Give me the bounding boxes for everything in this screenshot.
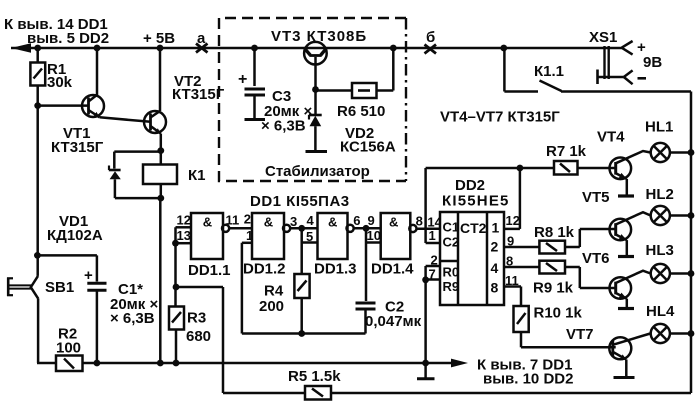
svg-text:9В: 9В (643, 54, 662, 71)
transistor VT2 КТ315Г (144, 111, 166, 133)
svg-text:&: & (264, 215, 273, 230)
svg-text:R6 510: R6 510 (337, 103, 385, 120)
svg-text:3: 3 (290, 214, 297, 229)
lamp HL3 (651, 264, 670, 283)
svg-text:&: & (389, 215, 398, 230)
wire: relay bottom down to bottom rail (160, 184, 163, 198)
svg-text:DD1.4: DD1.4 (371, 261, 414, 278)
wire junction down to SB1/C1 node (36, 106, 39, 256)
capacitor C1 20мк 6.3В (37, 254, 97, 257)
svg-text:VT5: VT5 (582, 189, 610, 206)
arrow to pin 7 DD1 / pin 10 DD2 (451, 359, 468, 368)
arrow to pin 14 DD1 / pin 5 DD2 (left end of rail) (11, 43, 31, 53)
svg-text:б: б (426, 29, 435, 46)
capacitor C2 0,047мк (356, 302, 376, 305)
resistor R9 1k (504, 266, 539, 269)
svg-text:R7 1k: R7 1k (546, 143, 587, 160)
relay K1 coil (160, 151, 163, 165)
svg-text:11: 11 (226, 213, 240, 228)
svg-text:Стабилизатор: Стабилизатор (265, 163, 370, 180)
R0/R9 reset pins to ground (426, 265, 440, 268)
svg-text:КС156А: КС156А (340, 139, 396, 156)
zener VD2 КС156А (314, 90, 317, 115)
node SB1/C1 junction (34, 252, 41, 259)
resistor R4 200 (294, 274, 309, 298)
svg-text:R4: R4 (264, 283, 284, 300)
svg-text:VT4–VT7 КТ315Г: VT4–VT7 КТ315Г (440, 109, 560, 126)
wire to pin 10 and C2 (365, 228, 368, 301)
wire VT2 emitter down (160, 134, 163, 151)
wire 3 to 4 (290, 227, 317, 230)
svg-text:2: 2 (491, 239, 499, 255)
svg-text:CT2: CT2 (460, 220, 487, 236)
svg-text:R9 1k: R9 1k (533, 280, 574, 297)
svg-text:XS1: XS1 (589, 29, 617, 46)
svg-text:1: 1 (492, 220, 500, 236)
svg-text:VT6: VT6 (582, 250, 610, 267)
K1.1 relay contact (503, 48, 506, 92)
svg-text:R10 1k: R10 1k (534, 305, 583, 322)
svg-text:К1.1: К1.1 (534, 63, 564, 80)
loop wire (feedback) (242, 332, 366, 335)
svg-text:C1: C1 (443, 220, 460, 235)
junction R1 on rail (34, 45, 41, 52)
bottom common rail (37, 362, 452, 365)
svg-text:выв. 10 DD2: выв. 10 DD2 (483, 371, 573, 388)
diode VD1 КД102А (flyback) (114, 150, 161, 153)
svg-text:0,047мк: 0,047мк (365, 313, 422, 330)
right edge supply wire (690, 92, 693, 394)
stabilizer dashed box (219, 18, 406, 181)
lamp HL4 (651, 324, 670, 343)
svg-text:R5 1.5k: R5 1.5k (288, 368, 341, 385)
node a X mark (196, 44, 208, 53)
junction K1.1 branch on rail (500, 45, 507, 52)
pushbutton SB1 (36, 255, 39, 276)
svg-text:4: 4 (307, 213, 315, 228)
svg-text:30k: 30k (47, 74, 73, 91)
junction VT2 collector on rail (+5V) (157, 45, 164, 52)
svg-text:R0: R0 (443, 265, 460, 280)
svg-text:DD1.2: DD1.2 (243, 261, 286, 278)
transistor VT4 (610, 158, 632, 180)
wire 8 to 14 (DD2 C1) (417, 227, 441, 230)
svg-text:КТ315Г: КТ315Г (172, 86, 225, 103)
svg-text:2: 2 (431, 253, 438, 268)
wire to pin 5 and R4 (300, 228, 303, 274)
svg-text:&: & (328, 215, 337, 230)
svg-text:выв. 5 DD2: выв. 5 DD2 (27, 30, 109, 47)
gate DD1.4 (381, 213, 411, 259)
svg-text:C2: C2 (443, 235, 460, 250)
wire VT1 emitter to VT2 base (100, 117, 151, 122)
lamp HL1 (651, 143, 670, 162)
svg-text:8: 8 (506, 254, 513, 269)
svg-text:8: 8 (416, 214, 423, 229)
svg-text:DD1.1: DD1.1 (188, 262, 231, 279)
node b X mark (425, 45, 437, 54)
svg-text:R8 1k: R8 1k (534, 224, 575, 241)
svg-text:SB1: SB1 (45, 279, 74, 296)
resistor R10 1k (504, 285, 521, 288)
svg-text:680: 680 (186, 328, 211, 345)
svg-text:11: 11 (505, 273, 519, 288)
svg-text:КI55НЕ5: КI55НЕ5 (442, 193, 510, 210)
svg-text:VT4: VT4 (597, 129, 625, 146)
resistor R8 1k (504, 246, 539, 249)
svg-text:200: 200 (259, 298, 284, 315)
svg-text:2: 2 (244, 212, 251, 227)
svg-text:R9: R9 (443, 279, 460, 294)
ground symbol on bottom rail (422, 360, 429, 367)
svg-text:DD1 КI55ПА3: DD1 КI55ПА3 (250, 193, 350, 210)
resistor R3 680 (173, 284, 180, 291)
capacitor C3 (253, 48, 256, 86)
wire 11 to 2 (229, 227, 252, 230)
svg-text:12: 12 (506, 213, 520, 228)
svg-text:VT7: VT7 (566, 326, 594, 343)
svg-text:+: + (238, 71, 247, 88)
svg-text:+: + (84, 267, 93, 284)
svg-text:× 6,3В: × 6,3В (261, 118, 306, 135)
gate DD1.2 (252, 213, 284, 259)
wire 6 to 9 (354, 227, 381, 230)
wire pin 1 of DD1.2 down to loop (242, 242, 252, 245)
transistor VT1 КТ315Г (38, 104, 89, 107)
resistor R7 1k (520, 167, 554, 170)
gate DD1.3 (318, 213, 348, 259)
svg-text:КТ315Г: КТ315Г (51, 139, 104, 156)
svg-text:7: 7 (429, 266, 436, 281)
svg-text:9: 9 (368, 213, 375, 228)
svg-text:HL2: HL2 (646, 186, 674, 203)
svg-text:× 6,3В: × 6,3В (110, 310, 155, 327)
junction C3 on rail (251, 45, 258, 52)
svg-text:1: 1 (246, 228, 253, 243)
svg-text:100: 100 (56, 340, 81, 357)
svg-text:1: 1 (429, 228, 436, 243)
resistor R6 510 (316, 89, 353, 92)
resistor R2 100 (56, 356, 83, 372)
svg-text:HL4: HL4 (646, 303, 675, 320)
node R1/VT1 base junction (34, 102, 41, 109)
svg-text:12: 12 (177, 213, 191, 228)
svg-text:9: 9 (507, 234, 514, 249)
svg-text:DD1.3: DD1.3 (314, 261, 357, 278)
svg-text:DD2: DD2 (455, 177, 485, 194)
svg-text:+ 5В: + 5В (143, 30, 175, 47)
svg-text:6: 6 (353, 213, 360, 228)
transistor VT6 (610, 277, 632, 299)
svg-text:13: 13 (177, 228, 191, 243)
junction VT1 collector on rail (94, 45, 101, 52)
feedback wire pin12 DD2 to C2 input (424, 168, 427, 243)
transistor VT7 (609, 337, 631, 359)
svg-text:10: 10 (367, 228, 381, 243)
wire from R3 top node to R5 (176, 286, 223, 289)
svg-text:HL1: HL1 (645, 119, 673, 136)
wire: main +5V/+9V top rail (11, 47, 622, 50)
svg-text:8: 8 (491, 280, 499, 296)
resistor R5 1.5k on bottom return wire (223, 392, 305, 395)
svg-text:R3: R3 (187, 310, 206, 327)
svg-text:5: 5 (306, 229, 313, 244)
lamp HL2 (651, 206, 670, 225)
resistor R1 30k (36, 48, 39, 63)
svg-text:КД102А: КД102А (47, 227, 103, 244)
transistor VT5 (610, 219, 632, 241)
svg-text:HL3: HL3 (646, 242, 674, 259)
gate DD1.1 (176, 226, 192, 229)
svg-text:К1: К1 (188, 167, 206, 184)
svg-text:4: 4 (491, 260, 499, 276)
svg-text:&: & (203, 215, 212, 230)
junction R6 return on rail (390, 45, 397, 52)
